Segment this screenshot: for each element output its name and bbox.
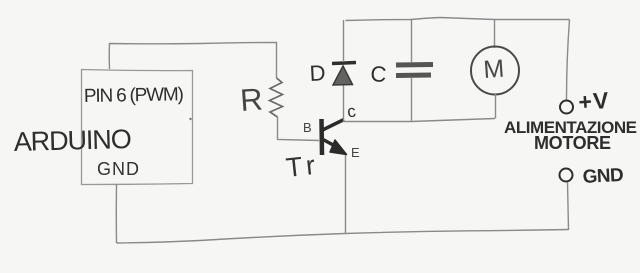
wire diode anode to collector node: [343, 85, 345, 120]
transistor Tr emitter arrowhead: [330, 140, 347, 155]
svg-text:ARDUINO: ARDUINO: [13, 124, 132, 157]
svg-text:R: R: [239, 82, 264, 118]
wire top rail: [346, 18, 570, 21]
transistor Tr base bar: [319, 119, 324, 155]
stray pencil dot: [189, 118, 191, 120]
svg-text:M: M: [482, 55, 505, 84]
svg-text:B: B: [303, 120, 312, 135]
svg-text:C: C: [370, 61, 388, 87]
svg-text:E: E: [351, 145, 360, 160]
svg-text:PIN 6 (PWM): PIN 6 (PWM): [84, 84, 184, 107]
wire top rail to +V terminal: [567, 20, 570, 101]
terminal GND circle: [560, 169, 573, 182]
capacitor C top plate: [396, 62, 433, 68]
wire top rail to motor: [494, 19, 496, 48]
svg-text:D: D: [309, 60, 326, 86]
transistor Tr collector stroke: [323, 120, 345, 131]
wire capacitor to collector rail: [411, 78, 413, 122]
transistor Tr emitter stroke: [323, 140, 336, 147]
wire emitter to bottom rail: [345, 155, 347, 234]
wire motor to collector rail: [495, 94, 497, 119]
wire diode cathode to top rail: [343, 20, 345, 62]
svg-text:+V: +V: [578, 87, 610, 115]
capacitor C bottom plate: [396, 73, 431, 79]
wire pin6 to resistor: [109, 43, 276, 79]
wire bottom rail: [117, 230, 569, 244]
svg-text:GND: GND: [582, 165, 624, 188]
resistor R: [270, 78, 283, 117]
wire arduino GND drop: [115, 184, 117, 243]
motor M circle: [471, 47, 519, 95]
wire resistor to base: [278, 117, 320, 141]
terminal +V circle: [560, 101, 573, 114]
diode D triangle (anode): [333, 66, 353, 85]
wire top rail to capacitor: [411, 20, 413, 62]
wire GND terminal to bottom rail: [568, 182, 569, 230]
svg-text:GND: GND: [97, 159, 139, 179]
node collector junction and rail to motor: [344, 119, 496, 122]
arduino module box: [82, 70, 193, 185]
diode D cathode bar: [332, 63, 356, 64]
svg-text:MOTORE: MOTORE: [534, 133, 611, 153]
